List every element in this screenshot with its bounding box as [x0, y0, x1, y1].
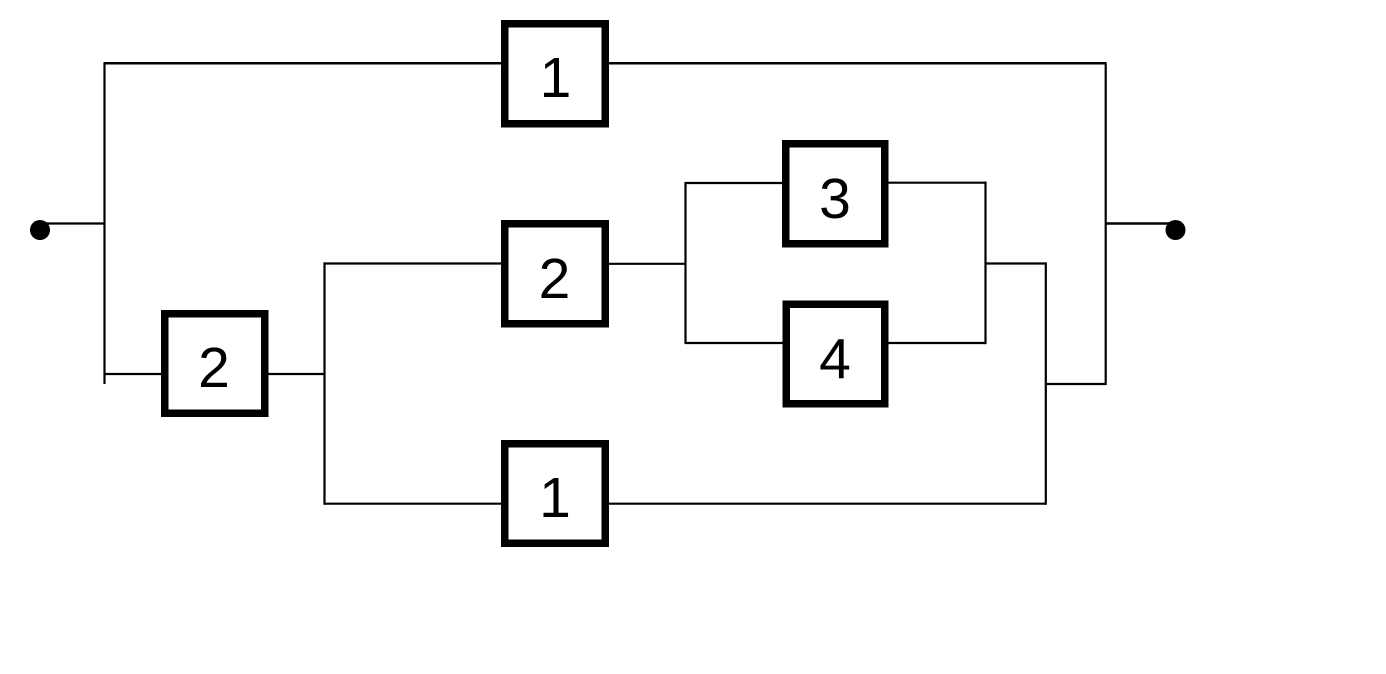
- svg-text:1: 1: [539, 466, 571, 530]
- wire: left bus vertical: [103, 62, 105, 384]
- wire: output lead: [1105, 222, 1170, 225]
- block 4: [786, 304, 885, 404]
- block 1 (bottom): [505, 444, 606, 544]
- wire: parallel group left vertical: [684, 182, 686, 344]
- wire: middle split vertical: [323, 262, 325, 504]
- wire: block 4 output: [889, 342, 987, 344]
- wire: middle branch drop vertical: [1045, 262, 1047, 504]
- wire: block 2 (middle) output: [609, 263, 686, 265]
- block 2 (left): [165, 314, 265, 414]
- wire: parallel group output: [985, 262, 1047, 264]
- wire: input lead: [44, 222, 105, 224]
- svg-text:4: 4: [819, 328, 851, 392]
- svg-text:3: 3: [819, 167, 851, 231]
- block 2 (middle): [505, 224, 606, 324]
- wire: right bus vertical: [1105, 62, 1107, 385]
- wire: block 2 output: [269, 373, 326, 375]
- input terminal dot: [30, 220, 50, 240]
- svg-text:1: 1: [540, 46, 572, 110]
- block 3: [786, 144, 885, 244]
- svg-text:2: 2: [539, 247, 571, 311]
- wire: top branch left segment: [104, 62, 501, 65]
- wire: block 3 output: [889, 182, 987, 184]
- output terminal dot: [1166, 220, 1186, 240]
- wire: middle branch into block 2 (middle): [324, 262, 501, 264]
- wire: into block 3: [685, 182, 782, 184]
- wire: block 1 (bottom) output: [609, 503, 1046, 505]
- wire: feed to block 2 (left): [104, 373, 161, 375]
- wire: join connector: [1045, 383, 1106, 385]
- wire: into block 4: [685, 342, 783, 344]
- block 1 (top): [505, 24, 606, 124]
- wire: parallel group right vertical: [984, 182, 986, 345]
- wire: top branch right segment: [609, 62, 1106, 65]
- wire: bottom branch into block 1 (bottom): [324, 503, 501, 505]
- svg-text:2: 2: [198, 336, 230, 400]
